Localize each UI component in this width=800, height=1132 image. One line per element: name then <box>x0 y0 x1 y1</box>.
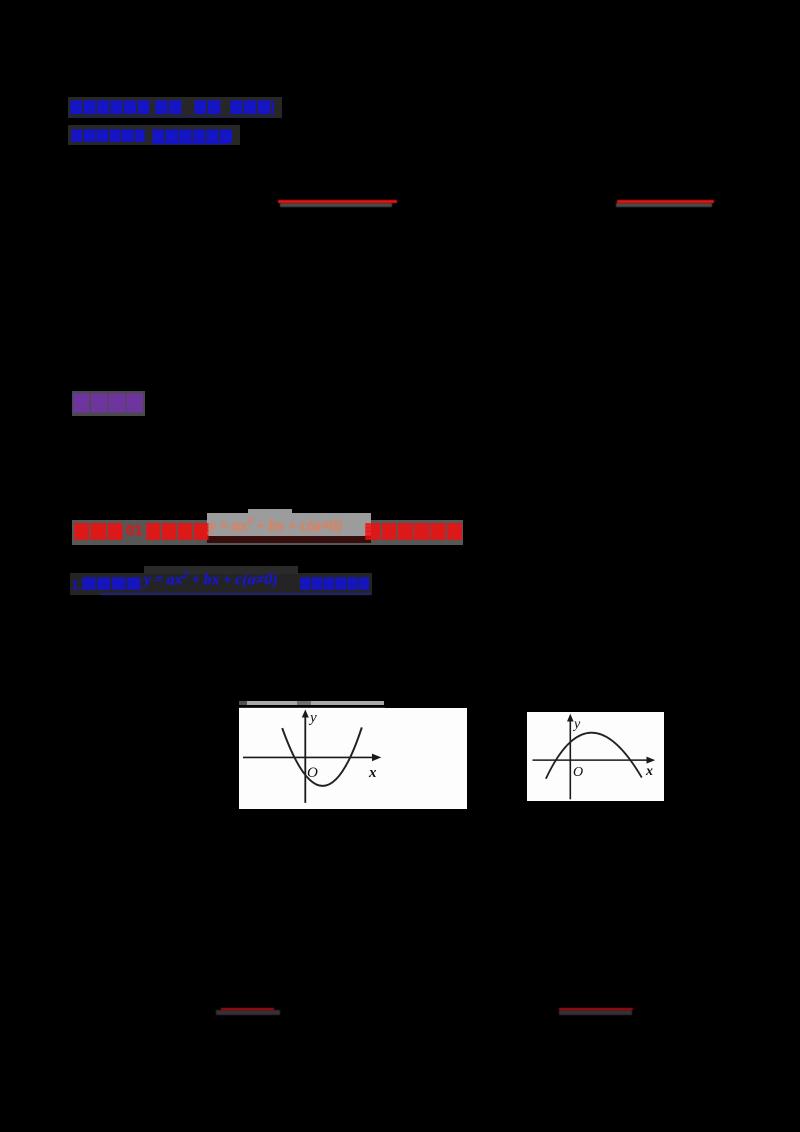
blank line right (red) <box>617 200 714 203</box>
red title text 01 <box>126 522 143 539</box>
gray strip darker segment <box>297 701 311 705</box>
red title: maroon underline strip <box>207 536 371 543</box>
gray strip above left graph <box>239 701 384 705</box>
blue subtitle formula <box>144 569 278 589</box>
purple label backing <box>72 391 145 416</box>
svg-text:x: x <box>645 764 653 779</box>
bottom blank left gray <box>216 1010 280 1015</box>
svg-text:O: O <box>573 765 583 780</box>
blue subtitle backing bump <box>144 566 298 574</box>
dark line under strip <box>239 707 385 709</box>
red title formula y=ax2+bx+c(a≠0) salmon <box>209 515 343 535</box>
red title: light gray formula backing <box>207 513 371 536</box>
line2 underline <box>152 142 230 144</box>
parabola <box>282 728 362 787</box>
line1 blue text cluster 3: 性质， <box>194 100 221 114</box>
line2 blue text cluster 2: 待定系数法。 <box>152 129 233 143</box>
purple label underline <box>73 411 143 414</box>
red title text 知识点 <box>74 523 124 540</box>
line1 faint underline <box>70 116 274 118</box>
line1 backing box <box>68 97 282 118</box>
red title suffix 的图象与性质 <box>365 523 463 541</box>
blue subtitle 二次函数 <box>82 577 142 590</box>
bottom blank right red <box>559 1008 633 1010</box>
red title: dark gray backing <box>72 520 463 546</box>
line1 blue text cluster 1: 1.一次函数： <box>70 100 150 114</box>
y axis <box>304 714 306 803</box>
line2 blue text cluster 1: 2.反比例函数， <box>71 129 145 143</box>
svg-text:y: y <box>308 710 317 726</box>
svg-text:O: O <box>307 765 318 781</box>
line1 blue text cluster 4: 应用。 <box>230 100 274 114</box>
blank line left (gray) <box>280 203 392 208</box>
blue subtitle 1. <box>72 578 82 592</box>
svg-text:y: y <box>572 717 581 732</box>
blue subtitle backing <box>70 573 372 595</box>
left graph box <box>239 708 467 809</box>
line2 backing box <box>68 125 240 145</box>
right graph box <box>527 712 664 801</box>
x axis <box>243 757 376 759</box>
y axis <box>569 717 571 799</box>
gray strip dark left cap <box>239 701 247 705</box>
line1 blue text cluster 2: 图象， <box>155 100 183 114</box>
x axis <box>533 759 651 761</box>
blue subtitle suffix 的图象与性质 <box>300 577 370 590</box>
purple label text 知识梳理 <box>73 393 144 412</box>
blue subtitle underline <box>100 593 370 596</box>
parabola <box>546 732 642 778</box>
bottom blank right gray <box>559 1010 632 1015</box>
red title: formula backing bump (superscript) <box>248 509 292 514</box>
blank line left (red) <box>278 200 397 203</box>
svg-text:x: x <box>368 765 377 781</box>
red title text 二次函数 <box>146 523 210 540</box>
blank line right (gray) <box>616 203 712 208</box>
bottom blank left red <box>221 1008 274 1010</box>
